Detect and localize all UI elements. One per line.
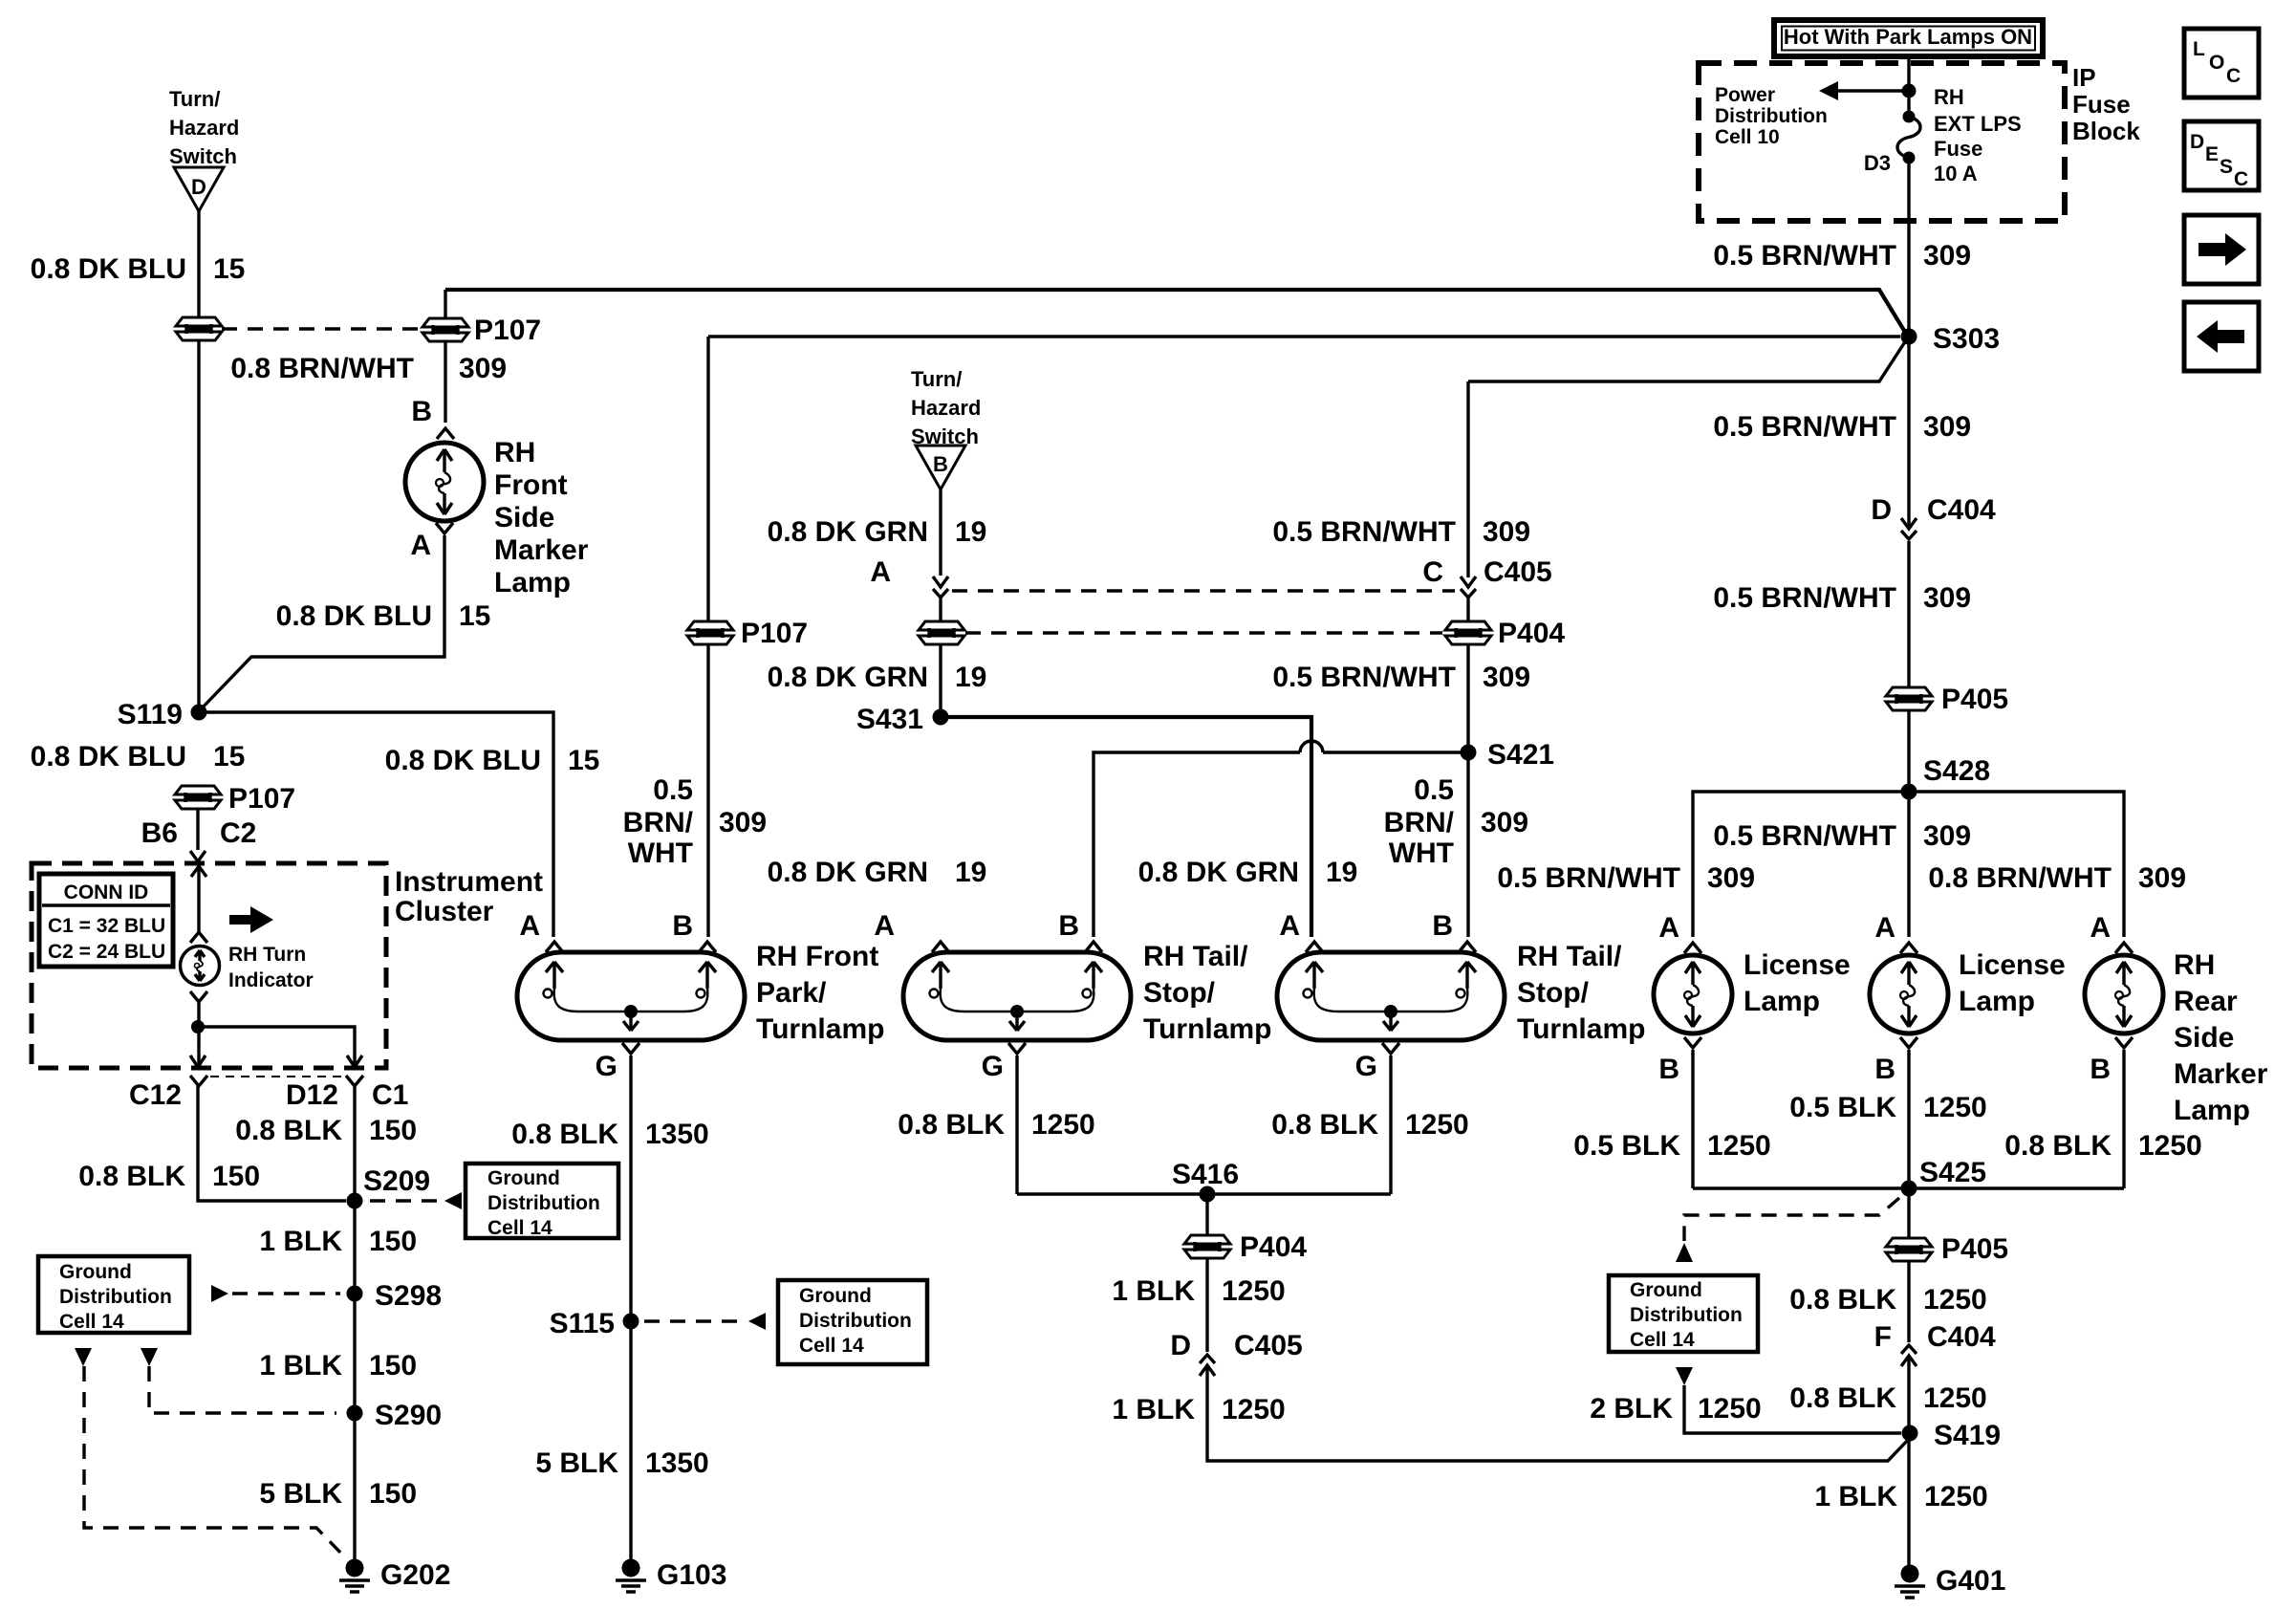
- wire lamp3 G to S416: [1389, 1055, 1392, 1194]
- svg-text:S290: S290: [375, 1400, 442, 1431]
- svg-text:1250: 1250: [2138, 1130, 2202, 1162]
- svg-text:RH Front: RH Front: [756, 941, 878, 972]
- svg-text:WHT: WHT: [628, 838, 693, 869]
- dashed reference from S209: [370, 1199, 442, 1202]
- svg-text:B: B: [672, 910, 693, 942]
- reference arrow ground cell left 1: [75, 1348, 92, 1366]
- svg-text:Marker: Marker: [2174, 1058, 2268, 1090]
- CONN ID table: [39, 874, 173, 967]
- connector C404 pin D crossing: [1901, 518, 1917, 539]
- indicator bottom chevron: [190, 991, 207, 1002]
- ground G103: [616, 1559, 726, 1593]
- splice S119: [191, 705, 207, 721]
- connector C404 pin F label: [1874, 1321, 1996, 1353]
- connector C405 pin D label: [1170, 1330, 1302, 1361]
- svg-text:Lamp: Lamp: [1959, 986, 2035, 1017]
- svg-text:S428: S428: [1923, 755, 1990, 787]
- svg-text:E: E: [2205, 143, 2219, 165]
- svg-text:150: 150: [369, 1350, 417, 1382]
- svg-text:S421: S421: [1487, 739, 1554, 771]
- wire S303 to RH front side marker feed: [445, 290, 1906, 334]
- wire label 0.8 DK GRN 19 above C405: [768, 516, 987, 548]
- indicator top chevron: [190, 932, 207, 943]
- svg-text:B: B: [2090, 1054, 2111, 1085]
- svg-text:S115: S115: [550, 1308, 615, 1339]
- wire label 0.8 DK GRN 19 tail lamp1 A: [768, 857, 987, 888]
- svg-text:Side: Side: [494, 502, 554, 533]
- wire label 0.8 BLK 150 left: [78, 1161, 260, 1192]
- connector C405 pin D crossing: [1200, 1355, 1215, 1376]
- splice S303: [1901, 329, 1917, 345]
- svg-text:D: D: [2190, 131, 2204, 153]
- svg-text:B: B: [1658, 1054, 1679, 1085]
- wire branch to C1 exit: [198, 1027, 355, 1066]
- wire S425 bus: [1693, 1186, 2124, 1189]
- splice S209: [347, 1193, 363, 1209]
- svg-text:0.8 BLK: 0.8 BLK: [511, 1119, 618, 1150]
- wire P107 to cluster: [196, 810, 199, 850]
- connector C404 pin F crossing: [1901, 1345, 1917, 1366]
- ground distribution cell 14 box middle: [778, 1280, 927, 1364]
- pass-through grommet P405 lower: [1886, 1238, 1932, 1261]
- svg-text:10 A: 10 A: [1934, 162, 1978, 185]
- svg-text:0.5: 0.5: [1414, 774, 1454, 806]
- dashed grommet pairing P107 P404: [965, 631, 1442, 634]
- wire label 2 BLK 1250: [1590, 1393, 1761, 1425]
- svg-text:Ground: Ground: [1630, 1279, 1702, 1301]
- svg-text:Distribution: Distribution: [799, 1310, 912, 1332]
- svg-text:15: 15: [568, 745, 599, 776]
- node cluster branch: [191, 1020, 205, 1033]
- svg-text:B: B: [411, 396, 432, 427]
- svg-text:309: 309: [1923, 582, 1971, 614]
- forward arrow box: [2184, 215, 2259, 284]
- turn hazard switch terminal D triangle: [174, 167, 224, 211]
- connector pin labels C12 D12 C1: [129, 1079, 408, 1111]
- svg-text:Distribution: Distribution: [487, 1192, 600, 1214]
- pass-through grommet P107 cluster: [175, 786, 221, 809]
- svg-text:0.8 DK BLU: 0.8 DK BLU: [385, 745, 541, 776]
- svg-text:0.8 BLK: 0.8 BLK: [1789, 1382, 1896, 1414]
- name label RH tail stop turnlamp 1: [1143, 941, 1271, 1045]
- wire label 0.5 BRN/WHT 309: [1713, 240, 1971, 272]
- wire label 0.8 DK BLU 15 marker A: [276, 600, 491, 632]
- lamp RH rear side marker lamp: [2085, 955, 2163, 1033]
- svg-text:G: G: [982, 1051, 1004, 1082]
- lamp RH tail stop turnlamp 2: [1277, 952, 1505, 1040]
- svg-text:309: 309: [2138, 862, 2186, 894]
- svg-text:S: S: [2220, 156, 2233, 178]
- dashed reference to G202: [84, 1366, 346, 1558]
- svg-text:309: 309: [1923, 240, 1971, 272]
- dashed connector C405 line: [952, 589, 1455, 592]
- wire label 0.8 DK BLU 15 branch: [385, 745, 600, 776]
- ground distribution cell 14 box top: [466, 1164, 618, 1239]
- pin G chevron RH tail stop turnlamp 1: [1008, 1043, 1026, 1054]
- RH Turn Indicator label: [228, 944, 314, 991]
- svg-text:S298: S298: [375, 1280, 442, 1312]
- svg-text:0.5 BRN/WHT: 0.5 BRN/WHT: [1713, 582, 1896, 614]
- svg-text:C: C: [2234, 168, 2248, 190]
- svg-text:O: O: [2209, 52, 2224, 74]
- pin A chevron license lamp 2: [1900, 943, 1917, 953]
- svg-text:Turnlamp: Turnlamp: [1143, 1013, 1271, 1045]
- svg-text:Rear: Rear: [2174, 986, 2238, 1017]
- wire P404 to C405 D: [1205, 1259, 1208, 1352]
- pin B chevron RH tail stop turnlamp 1: [1085, 942, 1102, 952]
- svg-text:S303: S303: [1933, 323, 2000, 355]
- svg-text:0.5 BRN/WHT: 0.5 BRN/WHT: [1497, 862, 1680, 894]
- svg-text:G202: G202: [380, 1559, 450, 1591]
- svg-text:Turn/: Turn/: [169, 87, 220, 111]
- svg-text:P405: P405: [1941, 1233, 2008, 1265]
- svg-text:2 BLK: 2 BLK: [1590, 1393, 1673, 1425]
- svg-text:BRN/: BRN/: [623, 807, 694, 838]
- svg-text:Stop/: Stop/: [1143, 977, 1216, 1009]
- wire S421 to tail lamp 2 pin B: [1466, 752, 1469, 937]
- svg-text:CONN ID: CONN ID: [64, 881, 149, 903]
- svg-text:P404: P404: [1498, 618, 1565, 649]
- ground distribution cell 14 box left: [38, 1256, 189, 1333]
- wire P404 to S421: [1466, 645, 1469, 752]
- wire tail lamp 1 pin B to S421 with hop: [1094, 752, 1300, 937]
- wire label 0.8 BLK 1250 above C404: [1789, 1284, 1986, 1316]
- wire C404 F to S419: [1907, 1358, 1910, 1574]
- wire C405 C to P404: [1466, 598, 1469, 621]
- svg-text:1250: 1250: [1698, 1393, 1762, 1425]
- svg-text:B: B: [1874, 1054, 1895, 1085]
- svg-text:P404: P404: [1240, 1231, 1307, 1263]
- svg-text:19: 19: [1326, 857, 1357, 888]
- svg-text:C404: C404: [1927, 494, 1996, 526]
- reference arrow ground cell left 2: [141, 1348, 158, 1366]
- svg-text:0.8 DK BLU: 0.8 DK BLU: [31, 253, 186, 285]
- svg-text:0.5 BRN/WHT: 0.5 BRN/WHT: [1713, 820, 1896, 852]
- splice S421: [1461, 745, 1477, 761]
- svg-text:0.8 BRN/WHT: 0.8 BRN/WHT: [1928, 862, 2112, 894]
- svg-text:S119: S119: [118, 699, 183, 730]
- svg-text:0.8 BLK: 0.8 BLK: [1789, 1284, 1896, 1316]
- wire label 0.8 BLK 1350: [511, 1119, 708, 1150]
- split wire label 0.5 BRN/WHT 309 lamp2 B: [1384, 774, 1528, 869]
- svg-text:Lamp: Lamp: [1744, 986, 1820, 1017]
- reference arrow to S425: [1676, 1243, 1693, 1262]
- wire grommet to S119: [197, 341, 200, 712]
- fuse value label RH EXT LPS Fuse 10 A: [1934, 85, 2022, 185]
- svg-text:1250: 1250: [1031, 1109, 1095, 1141]
- svg-text:D: D: [1871, 494, 1892, 526]
- wire feed corner to C405 C: [1466, 381, 1469, 577]
- svg-text:150: 150: [369, 1478, 417, 1510]
- svg-text:C: C: [1422, 556, 1443, 588]
- svg-text:0.8 DK GRN: 0.8 DK GRN: [768, 662, 928, 693]
- pin G chevron RH tail stop turnlamp 2: [1382, 1043, 1399, 1054]
- dashed reference to S290: [149, 1366, 336, 1413]
- LOC reference box: [2184, 29, 2259, 98]
- name label RH front side marker lamp: [494, 437, 589, 598]
- svg-text:P405: P405: [1941, 684, 2008, 715]
- svg-text:A: A: [874, 910, 895, 942]
- wire switch D down: [197, 211, 200, 317]
- svg-text:C2: C2: [220, 817, 256, 849]
- svg-text:19: 19: [955, 857, 986, 888]
- pin A chevron RH rear side marker lamp: [2115, 943, 2133, 953]
- wire S303 to RH front park turnlamp feed: [708, 335, 1900, 337]
- connector C2 pin B6 crossing: [190, 851, 206, 877]
- svg-text:BRN/: BRN/: [1384, 807, 1455, 838]
- pin A chevron RH tail stop turnlamp 1: [932, 942, 949, 952]
- Instrument Cluster label: [395, 866, 543, 927]
- svg-text:1250: 1250: [1222, 1394, 1286, 1425]
- svg-text:A: A: [519, 910, 540, 942]
- pass-through grommet P107 mid: [919, 621, 964, 644]
- wire label 0.8 BLK 1250 lamp3 G: [1271, 1109, 1468, 1141]
- instrument cluster dashed boundary: [32, 863, 386, 1068]
- svg-text:Stop/: Stop/: [1517, 977, 1590, 1009]
- svg-text:309: 309: [719, 807, 767, 838]
- fuse RH EXT LPS 10 A: [1897, 111, 1920, 164]
- svg-text:Distribution: Distribution: [1630, 1304, 1743, 1326]
- svg-text:1 BLK: 1 BLK: [259, 1350, 342, 1382]
- svg-text:Turn/: Turn/: [911, 367, 962, 391]
- svg-text:D: D: [191, 175, 206, 199]
- pin B chevron RH tail stop turnlamp 2: [1459, 942, 1476, 952]
- svg-text:309: 309: [1483, 662, 1530, 693]
- connector C1 chevron right: [346, 1076, 363, 1086]
- svg-text:Fuse: Fuse: [1934, 137, 1982, 161]
- connector C1 chevron left: [190, 1076, 207, 1086]
- reference arrow to S209: [444, 1192, 462, 1209]
- lamp license lamp 2: [1870, 955, 1948, 1033]
- connector C405 pin C crossing: [1461, 577, 1476, 598]
- svg-text:Side: Side: [2174, 1022, 2234, 1054]
- svg-text:Instrument: Instrument: [395, 866, 543, 898]
- name label license lamp 2: [1959, 949, 2066, 1017]
- pin B chevron license lamp 1: [1684, 1037, 1701, 1048]
- svg-text:Hazard: Hazard: [911, 396, 981, 420]
- svg-text:1 BLK: 1 BLK: [1112, 1275, 1195, 1307]
- wire C405 A to P107: [939, 598, 942, 717]
- svg-text:0.8 BLK: 0.8 BLK: [235, 1115, 342, 1146]
- svg-text:P107: P107: [228, 783, 295, 815]
- RH turn indicator lamp: [181, 946, 220, 986]
- svg-text:Cluster: Cluster: [395, 896, 494, 927]
- wire S428 to license lamp 2: [1907, 792, 1910, 937]
- svg-text:0.5 BRN/WHT: 0.5 BRN/WHT: [1272, 516, 1456, 548]
- IP Fuse Block label: [2072, 63, 2140, 145]
- svg-text:F: F: [1874, 1321, 1892, 1353]
- svg-text:A: A: [1874, 912, 1895, 944]
- svg-text:Ground: Ground: [59, 1261, 132, 1283]
- pin A chevron marker lamp: [436, 523, 453, 533]
- svg-text:309: 309: [1923, 411, 1971, 443]
- wire label 0.8 BLK 1250 right: [2004, 1130, 2201, 1162]
- svg-text:0.5 BRN/WHT: 0.5 BRN/WHT: [1713, 411, 1896, 443]
- wire label 0.8 BLK 150 right: [235, 1115, 417, 1146]
- ground G202: [339, 1559, 450, 1593]
- pin A chevron license lamp 1: [1684, 943, 1701, 953]
- wire label 0.5 BLK 1250 center: [1789, 1092, 1986, 1123]
- svg-text:Ground: Ground: [799, 1285, 872, 1307]
- svg-text:150: 150: [369, 1226, 417, 1257]
- svg-text:0.8 DK GRN: 0.8 DK GRN: [768, 857, 928, 888]
- IP fuse block dashed boundary: [1699, 63, 2065, 221]
- svg-text:0.5: 0.5: [653, 774, 693, 806]
- wire S428 license lamp 1 branch: [1693, 792, 2124, 937]
- splice S425: [1901, 1181, 1917, 1197]
- svg-text:RH Tail/: RH Tail/: [1143, 941, 1248, 972]
- connector C404 pin D label: [1871, 494, 1996, 526]
- svg-text:1250: 1250: [1923, 1284, 1987, 1316]
- reference arrow from ground cell to 2 BLK wire: [1676, 1367, 1693, 1385]
- lamp RH front park turnlamp: [517, 952, 745, 1040]
- wire switch B to C405: [939, 490, 942, 576]
- dashed reference from S425: [1684, 1198, 1899, 1241]
- back arrow box: [2184, 302, 2259, 371]
- name label RH front park turnlamp: [756, 941, 884, 1045]
- pin B chevron license lamp 2: [1900, 1037, 1917, 1048]
- wire S431 to tail lamp 2 pin A: [941, 717, 1311, 937]
- RH front side marker lamp: [405, 443, 484, 521]
- ground distribution cell 14 box right: [1609, 1275, 1758, 1352]
- svg-text:Cell 14: Cell 14: [1630, 1329, 1695, 1351]
- wire 2 BLK to S419: [1684, 1385, 1901, 1433]
- svg-text:Distribution: Distribution: [59, 1286, 172, 1308]
- svg-text:0.8 DK GRN: 0.8 DK GRN: [1138, 857, 1299, 888]
- svg-text:RH Turn: RH Turn: [228, 944, 306, 966]
- svg-text:1250: 1250: [1923, 1092, 1987, 1123]
- wire label 1 BLK 1250 below C405 D: [1112, 1394, 1285, 1425]
- wire label 0.5 BRN/WHT 309 below S428: [1713, 820, 1971, 852]
- wire label 0.5 BRN/WHT 309 below S303: [1713, 411, 1971, 443]
- wire from power label into fuse block: [1907, 57, 1910, 117]
- reference arrow from ground cell to S298: [211, 1285, 228, 1302]
- wire license lamp 2 pin B down: [1907, 1050, 1910, 1188]
- svg-text:Fuse: Fuse: [2072, 90, 2131, 119]
- svg-text:B6: B6: [141, 817, 178, 849]
- wire marker lamp A to S119: [199, 535, 444, 711]
- wire label 0.5 BLK 1250 left: [1573, 1130, 1770, 1162]
- svg-text:A: A: [870, 556, 891, 588]
- splice S428: [1901, 784, 1917, 800]
- svg-text:P107: P107: [741, 618, 808, 649]
- svg-text:A: A: [1279, 910, 1300, 942]
- dashed connector C1 line: [210, 1076, 344, 1077]
- svg-text:License: License: [1744, 949, 1851, 981]
- turn hazard switch terminal B triangle: [916, 446, 965, 490]
- svg-text:0.8 BRN/WHT: 0.8 BRN/WHT: [230, 353, 414, 384]
- split wire label 0.5 BRN/WHT 309 lamp1 B: [623, 774, 767, 869]
- cluster direction arrow: [229, 906, 273, 933]
- wire label 5 BLK 1350: [535, 1447, 708, 1479]
- arrow to power distribution cell 10: [1819, 81, 1909, 100]
- svg-text:P107: P107: [474, 315, 541, 346]
- wire S425 to P405 lower: [1907, 1188, 1910, 1237]
- splice S431: [933, 709, 949, 726]
- svg-text:0.5 BLK: 0.5 BLK: [1789, 1092, 1896, 1123]
- wire C405 D to S419: [1207, 1367, 1910, 1461]
- svg-text:C1: C1: [372, 1079, 408, 1111]
- svg-text:S209: S209: [363, 1165, 430, 1197]
- wire P107 to lamp1 pin B: [706, 645, 709, 937]
- svg-text:15: 15: [213, 741, 245, 772]
- lamp license lamp 1: [1654, 955, 1732, 1033]
- pin A chevron RH tail stop turnlamp 2: [1306, 942, 1323, 952]
- wire label 0.8 DK BLU 15 top: [31, 253, 246, 285]
- svg-text:0.5 BRN/WHT: 0.5 BRN/WHT: [1713, 240, 1896, 272]
- pin G chevron RH front park turnlamp: [622, 1043, 639, 1054]
- wire label 0.5 BRN/WHT 309 below P404: [1272, 662, 1530, 693]
- lamp RH tail stop turnlamp 1: [903, 952, 1131, 1040]
- svg-text:1250: 1250: [1222, 1275, 1286, 1307]
- svg-text:G401: G401: [1936, 1565, 2005, 1597]
- svg-text:A: A: [410, 530, 431, 561]
- svg-text:309: 309: [1707, 862, 1755, 894]
- svg-text:1 BLK: 1 BLK: [1112, 1394, 1195, 1425]
- svg-text:1250: 1250: [1924, 1481, 1988, 1512]
- pass-through grommet P405: [1886, 687, 1932, 710]
- wire P405 to C404 F: [1907, 1262, 1910, 1342]
- svg-text:Indicator: Indicator: [228, 969, 314, 991]
- wire license lamp 1 pin B down: [1691, 1050, 1694, 1188]
- wire label 0.8 BLK 1250 lamp2 G: [898, 1109, 1094, 1141]
- wire D12 to G202: [353, 1084, 356, 1568]
- svg-text:G: G: [1355, 1051, 1377, 1082]
- wire feed corner to P107 top: [444, 290, 446, 319]
- splice S419: [1902, 1425, 1918, 1442]
- svg-text:C1 = 32 BLU: C1 = 32 BLU: [48, 915, 165, 937]
- svg-text:Lamp: Lamp: [494, 567, 571, 598]
- wire S416 to P404 lower: [1205, 1194, 1208, 1234]
- svg-text:A: A: [2090, 912, 2111, 944]
- name label license lamp 1: [1744, 949, 1851, 1017]
- svg-text:RH: RH: [1934, 85, 1964, 109]
- svg-text:C2 = 24 BLU: C2 = 24 BLU: [48, 941, 165, 963]
- svg-text:Cell 14: Cell 14: [799, 1335, 864, 1357]
- svg-text:Turnlamp: Turnlamp: [1517, 1013, 1645, 1045]
- splice S298: [347, 1286, 363, 1302]
- svg-text:0.8 DK GRN: 0.8 DK GRN: [768, 516, 928, 548]
- svg-text:RH: RH: [494, 437, 535, 468]
- cluster exit arrow C12: [190, 1055, 206, 1067]
- reference arrow to S115: [748, 1313, 766, 1330]
- svg-text:B: B: [1058, 910, 1079, 942]
- svg-text:1250: 1250: [1405, 1109, 1469, 1141]
- svg-text:EXT LPS: EXT LPS: [1934, 112, 2022, 136]
- svg-text:Marker: Marker: [494, 534, 589, 566]
- svg-text:0.8 DK BLU: 0.8 DK BLU: [31, 741, 186, 772]
- Power Distribution Cell 10 label: [1715, 84, 1828, 148]
- dashed reference to S298: [232, 1292, 340, 1295]
- wire label 1 BLK 150 below S298: [259, 1350, 417, 1382]
- svg-text:1250: 1250: [1923, 1382, 1987, 1414]
- svg-text:License: License: [1959, 949, 2066, 981]
- pin B chevron RH rear side marker lamp: [2115, 1037, 2133, 1048]
- svg-text:Distribution: Distribution: [1715, 105, 1828, 127]
- svg-text:Front: Front: [494, 469, 568, 501]
- svg-text:Power: Power: [1715, 84, 1775, 106]
- wire label 0.5 BRN/WHT 309 above P404: [1272, 516, 1530, 548]
- splice S115: [623, 1314, 639, 1330]
- pass-through grommet P107 lamp1 feed: [687, 621, 733, 644]
- svg-text:C405: C405: [1234, 1330, 1303, 1361]
- svg-text:5 BLK: 5 BLK: [535, 1447, 618, 1479]
- wire S303 to C405 feed: [1468, 340, 1906, 381]
- svg-text:Hazard: Hazard: [169, 116, 239, 140]
- Turn/Hazard Switch B label: [911, 367, 981, 448]
- wire label 0.5 BRN/WHT 309 license lamp 1: [1497, 862, 1755, 894]
- svg-text:150: 150: [369, 1115, 417, 1146]
